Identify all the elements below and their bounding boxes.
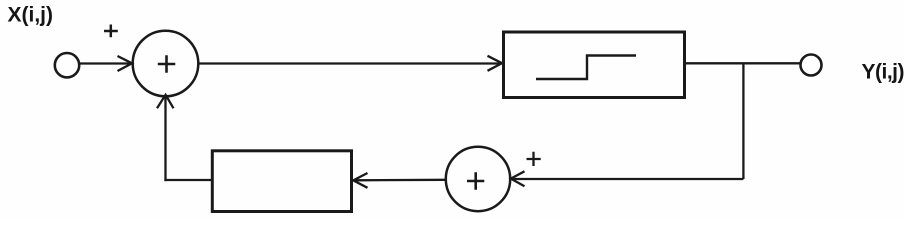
arrowhead up into S1 (157, 95, 174, 109)
plus sign inside S1 (158, 55, 176, 73)
wire feedback vertical rise to S1 (164, 96, 166, 181)
node X input terminal (55, 53, 79, 77)
arrowhead into filter block (353, 173, 367, 188)
svg-text:Y(i,j): Y(i,j) (862, 61, 904, 84)
plus sign (feedback sign at S2) (527, 152, 541, 166)
wire S2 to filter block (354, 179, 446, 182)
arrowhead into summer S1 (118, 56, 133, 71)
svg-text:X(i,j): X(i,j) (8, 4, 54, 27)
wire feedback to summer S2 (512, 178, 743, 180)
arrowhead into quantizer (488, 56, 503, 71)
wire feedback vertical drop (742, 63, 744, 179)
wire filter block to corner (164, 179, 212, 181)
node Y output terminal (801, 55, 822, 76)
summing junction S2 (446, 147, 510, 211)
wire S1 to quantizer (198, 62, 501, 64)
plus sign inside S2 (467, 172, 484, 190)
arrowhead into S2 (511, 171, 525, 186)
wire quantizer to output terminal (686, 62, 801, 64)
wire input terminal to summer S1 (80, 62, 131, 64)
filter block (212, 151, 351, 212)
summing junction S1 (133, 31, 199, 97)
plus sign (sign of X input) (104, 25, 118, 38)
quantizer step symbol (536, 56, 636, 80)
quantizer block (504, 32, 685, 98)
